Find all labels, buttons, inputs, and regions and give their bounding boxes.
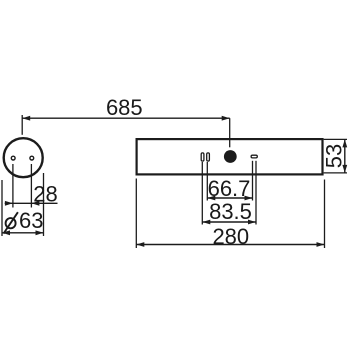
svg-text:53: 53 (322, 144, 347, 168)
svg-text:685: 685 (106, 95, 143, 120)
svg-text:280: 280 (212, 224, 249, 249)
svg-text:66.7: 66.7 (208, 176, 251, 201)
svg-text:28: 28 (33, 182, 57, 207)
svg-text:83.5: 83.5 (209, 199, 252, 224)
svg-text:63: 63 (19, 208, 43, 233)
